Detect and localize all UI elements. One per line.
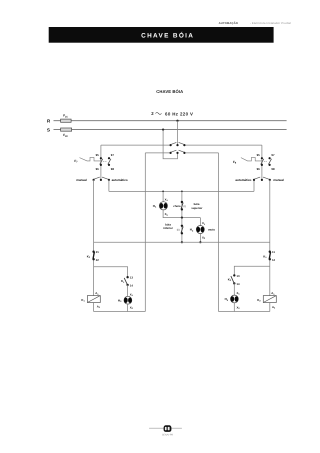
wire upper row to F8 bbox=[261, 145, 263, 180]
svg-text:98: 98 bbox=[111, 167, 115, 171]
svg-text:98: 98 bbox=[271, 167, 275, 171]
svg-text:- Eletricista Instalador Pr: - Eletricista Instalador Predial bbox=[250, 21, 291, 25]
svg-text:(i): (i) bbox=[184, 205, 186, 208]
svg-text:AUTOMAÇÃO: AUTOMAÇÃO bbox=[219, 21, 239, 25]
svg-text:CHAVE BÓIA: CHAVE BÓIA bbox=[156, 89, 183, 94]
contact K2 21-22 bbox=[87, 250, 100, 262]
wire automatico left drop bbox=[108, 180, 110, 192]
svg-text:S: S bbox=[47, 128, 50, 133]
svg-text:13: 13 bbox=[130, 276, 134, 280]
line R bbox=[47, 119, 287, 124]
svg-text:vazio: vazio bbox=[208, 228, 215, 232]
wire K2 contact to lamp H4 bbox=[233, 283, 235, 295]
wire K1 contact to lamp H3 bbox=[127, 285, 129, 296]
overload relay F8 thermal element bbox=[233, 157, 262, 164]
fuse F21 bbox=[61, 114, 72, 123]
svg-text:96: 96 bbox=[96, 167, 100, 171]
wire H1 branch lower to cross wire bbox=[163, 210, 200, 218]
coil K2 bbox=[257, 291, 276, 309]
wire lower selector row left bbox=[145, 152, 170, 154]
svg-text:automático: automático bbox=[112, 178, 128, 182]
lamp H2 vazio bbox=[190, 221, 215, 240]
selector switch S1 upper pole (R) bbox=[170, 142, 186, 146]
main bus bbox=[94, 241, 270, 243]
svg-text:11: 11 bbox=[272, 250, 275, 254]
wire H1 branch upper bbox=[162, 191, 164, 201]
wire upper selector row left bbox=[101, 144, 171, 146]
wire lamp H4 to bottom bus bbox=[233, 303, 235, 312]
junction dot boia superior on automatico wire bbox=[181, 191, 183, 193]
wire R drop to selector pole bbox=[177, 121, 179, 145]
svg-text:14: 14 bbox=[237, 282, 241, 286]
wire node to K2 13-14 branch bbox=[234, 266, 269, 275]
svg-text:13: 13 bbox=[237, 274, 241, 278]
wire automatico right riser bbox=[253, 180, 255, 192]
wire right box vertical from S row to bottom bus bbox=[218, 153, 220, 312]
svg-text:96: 96 bbox=[257, 167, 261, 171]
overload relay F8 contacts 95-96 97-98 bbox=[257, 153, 275, 171]
svg-text:SENAI-PR: SENAI-PR bbox=[162, 433, 174, 436]
svg-text:CHAVE BÓIA: CHAVE BÓIA bbox=[141, 32, 194, 40]
title bar CHAVE BOIA bbox=[49, 27, 274, 43]
wire upper row to F7 bbox=[100, 145, 102, 180]
footer page badge bbox=[164, 425, 172, 432]
svg-text:superior: superior bbox=[191, 206, 203, 210]
svg-text:22: 22 bbox=[96, 258, 100, 262]
svg-text:97: 97 bbox=[111, 153, 115, 157]
wire upper selector row right bbox=[184, 144, 262, 146]
node on S feeding selector bbox=[162, 129, 164, 131]
junction dot boia inferior on main bus bbox=[181, 241, 183, 243]
svg-text:inferior: inferior bbox=[163, 226, 174, 230]
bottom bus left bbox=[94, 311, 146, 313]
wire lamp H3 to bottom bus bbox=[127, 304, 129, 311]
svg-text:97: 97 bbox=[271, 153, 275, 157]
svg-text:(s): (s) bbox=[177, 228, 180, 231]
lamp H3 bbox=[118, 292, 134, 310]
page header small print bbox=[219, 21, 292, 25]
svg-text:manual: manual bbox=[273, 178, 284, 182]
left rail from manual contact down bbox=[93, 180, 95, 296]
supply label 2~ 60Hz 220V bbox=[151, 111, 193, 116]
wire node to K1 13-14 branch bbox=[94, 267, 128, 277]
wire coil K1 to bottom bus bbox=[93, 303, 95, 312]
contact K1 13-14 bbox=[121, 276, 133, 288]
bottom bus right bbox=[219, 311, 270, 313]
svg-text:21: 21 bbox=[96, 250, 100, 254]
wire automatico bus bbox=[109, 190, 254, 192]
svg-text:14: 14 bbox=[130, 283, 134, 287]
line S bbox=[47, 128, 287, 133]
wire left box vertical from S row to bottom bus bbox=[144, 153, 146, 312]
wire S jog to lower selector pole bbox=[163, 130, 177, 159]
svg-text:95: 95 bbox=[257, 153, 261, 157]
junction dot H1 branch on automatico wire bbox=[162, 191, 164, 193]
svg-text:12: 12 bbox=[272, 258, 276, 262]
selector switch S3 automatico/manual right bbox=[235, 177, 284, 182]
coil K1 bbox=[81, 291, 100, 309]
svg-text:manual: manual bbox=[76, 178, 87, 182]
wire H2 branch lower bbox=[199, 234, 201, 243]
node on R feeding selector bbox=[176, 120, 178, 122]
svg-text:automático: automático bbox=[235, 178, 251, 182]
wire coil K2 to bottom bus bbox=[269, 303, 271, 312]
selector switch S2 manual/automatico left bbox=[76, 177, 127, 182]
wire lower selector row right bbox=[184, 152, 218, 154]
overload relay F7 thermal element bbox=[74, 157, 101, 163]
svg-text:95: 95 bbox=[96, 153, 100, 157]
float switch boia inferior (s) bbox=[163, 218, 183, 243]
overload relay F7 contacts 95-96 97-98 bbox=[96, 153, 115, 171]
fuse F22 bbox=[61, 128, 72, 138]
lamp H1 cheio bbox=[153, 198, 181, 217]
footer rule bbox=[149, 427, 182, 429]
selector switch S1 lower pole (S) bbox=[170, 150, 186, 154]
svg-text:60 Hz 220 V: 60 Hz 220 V bbox=[165, 111, 193, 116]
junction dot H2 on main bus bbox=[199, 241, 201, 243]
contact K2 13-14 bbox=[228, 274, 240, 286]
wire H2 branch upper bbox=[199, 218, 201, 226]
lamp H4 bbox=[225, 291, 241, 310]
right rail from manual contact down bbox=[269, 180, 271, 296]
svg-text:cheio: cheio bbox=[173, 204, 181, 208]
float switch boia superior (i) bbox=[181, 191, 204, 217]
contact K1 11-12 bbox=[263, 250, 275, 262]
junction dot boia branch on cross wire bbox=[181, 217, 183, 219]
